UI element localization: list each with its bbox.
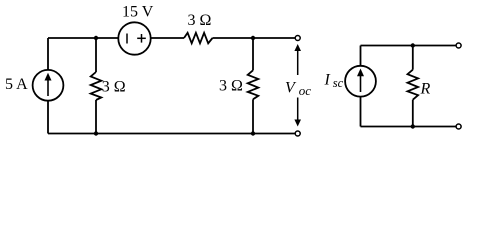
- wire top-left horizontal: [48, 37, 118, 39]
- wire left branch right-circuit upper: [360, 46, 362, 66]
- wire right branch lower: [252, 99, 254, 133]
- wire middle branch upper: [95, 38, 97, 72]
- wire left branch right-circuit lower: [360, 97, 362, 127]
- node E (top R junction): [411, 43, 415, 47]
- node F (bottom R junction): [411, 124, 415, 128]
- current source Isc arrow: [357, 69, 364, 93]
- wire top right (resistor to terminal): [213, 37, 296, 39]
- current source I1 arrow: [45, 73, 52, 96]
- svg-text:R: R: [420, 81, 431, 98]
- svg-text:Voc: Voc: [285, 80, 311, 99]
- svg-text:3 Ω: 3 Ω: [188, 12, 212, 29]
- resistor R (vertical): [408, 70, 419, 100]
- Voc arrow upper: [294, 44, 301, 75]
- svg-text:15 V: 15 V: [122, 4, 154, 21]
- resistor R1 (3 ohm horizontal top): [184, 33, 213, 44]
- wire bottom right-circuit: [361, 126, 456, 128]
- resistor R3 (3 ohm vertical right): [248, 70, 259, 99]
- node D (bottom right junction): [251, 131, 255, 135]
- right circuit: [345, 46, 456, 127]
- wire left branch vertical: [47, 38, 49, 70]
- wire left branch vertical lower: [47, 101, 49, 134]
- voltage source V1 circle: [118, 22, 150, 54]
- resistor R2 (3 ohm vertical middle): [91, 72, 102, 100]
- wire top middle (source to resistor): [151, 37, 184, 39]
- wire top right-circuit: [361, 45, 456, 47]
- wire right branch upper: [252, 38, 254, 70]
- svg-text:Isc: Isc: [324, 72, 344, 91]
- terminal a (top open): [295, 36, 300, 41]
- wire R branch upper: [412, 46, 414, 70]
- voltage source V1 polarity marks: [127, 34, 146, 44]
- terminal d (bottom open right): [456, 124, 461, 129]
- terminal c (top open right): [456, 43, 461, 48]
- node A (top middle junction): [94, 36, 98, 40]
- svg-text:5 A: 5 A: [5, 76, 28, 93]
- node B (top right junction): [251, 36, 255, 40]
- wire middle branch lower: [95, 100, 97, 134]
- terminal b (bottom open): [295, 131, 300, 136]
- current source Isc circle: [345, 66, 376, 97]
- svg-text:3 Ω: 3 Ω: [219, 78, 243, 95]
- svg-text:3 Ω: 3 Ω: [102, 79, 126, 96]
- current source I1 circle: [33, 70, 64, 101]
- wire bottom horizontal: [48, 133, 295, 135]
- node C (bottom middle junction): [94, 131, 98, 135]
- wire R branch lower: [412, 100, 414, 127]
- Voc arrow lower: [294, 98, 301, 127]
